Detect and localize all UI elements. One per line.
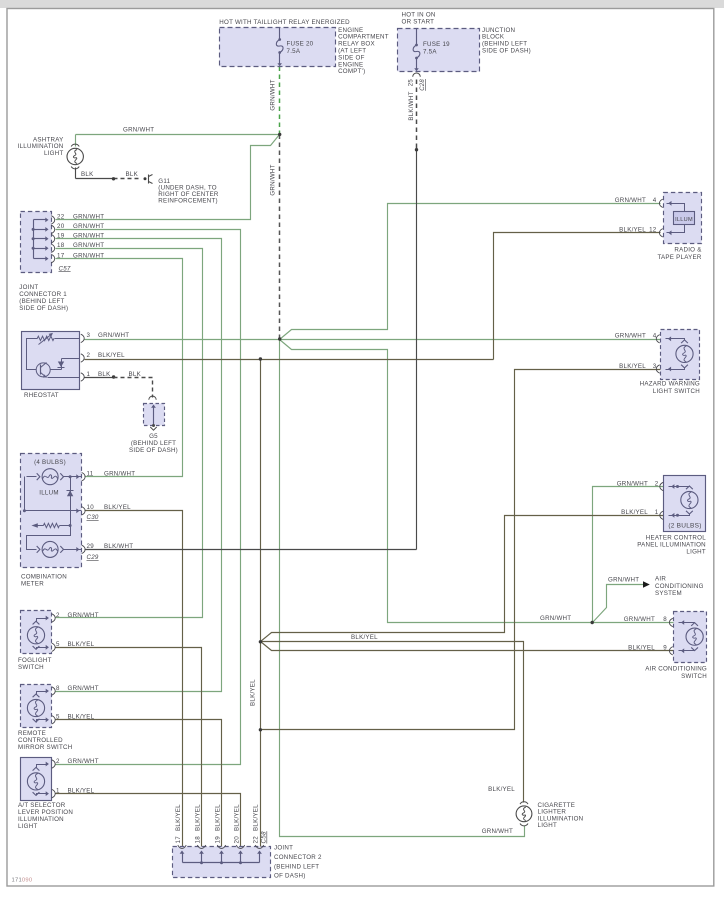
svg-text:SWITCH: SWITCH xyxy=(681,673,707,680)
svg-text:12: 12 xyxy=(649,227,657,234)
svg-text:CONDITIONING: CONDITIONING xyxy=(655,583,704,590)
svg-text:LIGHT: LIGHT xyxy=(538,822,557,829)
svg-text:7.5A: 7.5A xyxy=(287,48,301,55)
svg-text:ILLUM: ILLUM xyxy=(675,217,693,223)
svg-text:BLK/YEL: BLK/YEL xyxy=(621,509,648,516)
svg-text:19: 19 xyxy=(57,233,65,240)
svg-text:JOINT: JOINT xyxy=(274,844,293,851)
svg-text:BLK/YEL: BLK/YEL xyxy=(619,363,646,370)
svg-text:SIDE OF DASH): SIDE OF DASH) xyxy=(19,305,68,312)
svg-text:GRN/WHT: GRN/WHT xyxy=(617,480,648,487)
svg-text:RADIO &: RADIO & xyxy=(674,247,702,254)
svg-text:25: 25 xyxy=(409,79,415,87)
svg-text:22: 22 xyxy=(57,214,65,221)
svg-text:MIRROR SWITCH: MIRROR SWITCH xyxy=(18,744,72,751)
svg-text:FUSE 19: FUSE 19 xyxy=(423,41,450,48)
svg-text:LEVER POSITION: LEVER POSITION xyxy=(18,809,73,816)
svg-text:ILLUMINATION: ILLUMINATION xyxy=(18,816,64,823)
svg-text:GRN/WHT: GRN/WHT xyxy=(73,242,104,249)
svg-text:BLK/YEL: BLK/YEL xyxy=(194,804,201,831)
svg-text:17: 17 xyxy=(175,836,182,844)
svg-text:BLK/WHT: BLK/WHT xyxy=(408,91,415,120)
svg-text:GRN/WHT: GRN/WHT xyxy=(615,333,646,340)
svg-text:SIDE OF DASH): SIDE OF DASH) xyxy=(129,447,178,454)
svg-text:C57: C57 xyxy=(59,265,71,272)
svg-text:GRN/WHT: GRN/WHT xyxy=(73,252,104,259)
svg-text:1: 1 xyxy=(56,788,60,795)
svg-text:GRN/WHT: GRN/WHT xyxy=(270,79,277,110)
svg-text:BLK: BLK xyxy=(126,171,139,178)
svg-text:4: 4 xyxy=(653,197,657,204)
svg-text:BLK/YEL: BLK/YEL xyxy=(628,645,655,652)
svg-text:COMPT'): COMPT') xyxy=(338,68,365,75)
svg-text:SYSTEM: SYSTEM xyxy=(655,590,682,597)
svg-text:GRN/WHT: GRN/WHT xyxy=(608,577,639,584)
svg-text:GRN/WHT: GRN/WHT xyxy=(540,615,571,622)
svg-text:GRN/WHT: GRN/WHT xyxy=(73,233,104,240)
svg-text:C29: C29 xyxy=(87,554,99,561)
svg-text:GRN/WHT: GRN/WHT xyxy=(68,685,99,692)
svg-text:7.5A: 7.5A xyxy=(423,48,437,55)
svg-text:HOT WITH TAILLIGHT RELAY ENERG: HOT WITH TAILLIGHT RELAY ENERGIZED xyxy=(219,19,350,26)
svg-text:SIDE OF DASH): SIDE OF DASH) xyxy=(482,48,531,55)
svg-text:CONTROLLED: CONTROLLED xyxy=(18,737,63,744)
svg-text:29: 29 xyxy=(87,543,95,550)
svg-text:JOINT: JOINT xyxy=(19,284,38,291)
svg-text:FUSE 20: FUSE 20 xyxy=(287,41,314,48)
svg-text:BLK/YEL: BLK/YEL xyxy=(98,352,125,359)
svg-text:HEATER CONTROL: HEATER CONTROL xyxy=(646,535,706,542)
svg-text:LIGHT: LIGHT xyxy=(18,823,37,830)
svg-text:OR START: OR START xyxy=(402,19,435,26)
svg-text:OF DASH): OF DASH) xyxy=(274,873,306,880)
svg-text:22: 22 xyxy=(252,836,259,844)
svg-text:(BEHIND LEFT: (BEHIND LEFT xyxy=(19,298,64,305)
svg-text:GRN/WHT: GRN/WHT xyxy=(104,471,135,478)
svg-text:3: 3 xyxy=(653,363,657,370)
svg-text:BLK/YEL: BLK/YEL xyxy=(619,227,646,234)
svg-text:11: 11 xyxy=(87,471,94,478)
svg-text:20: 20 xyxy=(233,836,240,844)
svg-text:2: 2 xyxy=(56,758,60,765)
svg-text:(BEHIND LEFT: (BEHIND LEFT xyxy=(131,440,176,447)
svg-text:(4 BULBS): (4 BULBS) xyxy=(34,459,66,466)
svg-text:20: 20 xyxy=(57,223,65,230)
svg-text:(BEHIND LEFT: (BEHIND LEFT xyxy=(274,864,319,871)
svg-text:BLK/YEL: BLK/YEL xyxy=(68,788,95,795)
svg-text:GRN/WHT: GRN/WHT xyxy=(615,197,646,204)
svg-text:ILLUM: ILLUM xyxy=(39,490,58,497)
svg-text:BLK/YEL: BLK/YEL xyxy=(104,504,131,511)
svg-text:G5: G5 xyxy=(149,433,158,440)
svg-text:HAZARD WARNING: HAZARD WARNING xyxy=(640,381,700,388)
svg-text:2: 2 xyxy=(56,612,60,619)
svg-text:GRN/WHT: GRN/WHT xyxy=(73,223,104,230)
svg-text:BLK/YEL: BLK/YEL xyxy=(250,679,257,706)
svg-text:GRN/WHT: GRN/WHT xyxy=(98,332,129,339)
svg-text:GRN/WHT: GRN/WHT xyxy=(123,127,154,134)
svg-text:BLK/YEL: BLK/YEL xyxy=(68,714,95,721)
svg-text:AIR CONDITIONING: AIR CONDITIONING xyxy=(645,665,707,672)
svg-text:BLK/YEL: BLK/YEL xyxy=(68,641,95,648)
svg-text:GRN/WHT: GRN/WHT xyxy=(482,828,513,835)
svg-text:GRN/WHT: GRN/WHT xyxy=(624,616,655,623)
svg-text:3: 3 xyxy=(87,332,91,339)
svg-text:C28: C28 xyxy=(420,79,426,91)
svg-text:AIR: AIR xyxy=(655,576,666,583)
svg-text:GRN/WHT: GRN/WHT xyxy=(270,164,277,195)
svg-text:5: 5 xyxy=(56,714,60,721)
svg-text:BLK: BLK xyxy=(129,371,142,378)
svg-text:FOGLIGHT: FOGLIGHT xyxy=(18,657,52,664)
svg-text:METER: METER xyxy=(21,581,44,588)
svg-text:C58: C58 xyxy=(261,831,268,844)
svg-text:GRN/WHT: GRN/WHT xyxy=(68,612,99,619)
svg-text:BLK: BLK xyxy=(98,371,111,378)
svg-text:19: 19 xyxy=(214,836,221,844)
svg-text:BLK/YEL: BLK/YEL xyxy=(252,804,259,831)
svg-text:GRN/WHT: GRN/WHT xyxy=(73,214,104,221)
svg-text:C30: C30 xyxy=(87,514,99,521)
svg-text:HOT IN ON: HOT IN ON xyxy=(402,12,436,19)
svg-text:RHEOSTAT: RHEOSTAT xyxy=(24,392,59,399)
svg-text:9: 9 xyxy=(663,645,667,652)
svg-text:10: 10 xyxy=(87,504,95,511)
svg-text:18: 18 xyxy=(194,836,201,844)
svg-text:5: 5 xyxy=(56,641,60,648)
svg-text:CONNECTOR 2: CONNECTOR 2 xyxy=(274,854,322,861)
svg-text:LIGHT SWITCH: LIGHT SWITCH xyxy=(653,388,700,395)
svg-text:17: 17 xyxy=(57,252,65,259)
svg-text:CONNECTOR 1: CONNECTOR 1 xyxy=(19,291,67,298)
svg-text:8: 8 xyxy=(663,616,667,623)
svg-text:BLK/YEL: BLK/YEL xyxy=(233,804,240,831)
svg-text:1: 1 xyxy=(87,371,91,378)
svg-text:TAPE PLAYER: TAPE PLAYER xyxy=(657,254,701,261)
svg-text:2: 2 xyxy=(87,352,91,359)
svg-text:18: 18 xyxy=(57,242,65,249)
svg-text:1: 1 xyxy=(655,509,659,516)
svg-text:171090: 171090 xyxy=(12,878,33,884)
svg-text:(2 BULBS): (2 BULBS) xyxy=(668,523,701,530)
svg-text:BLK/YEL: BLK/YEL xyxy=(351,634,378,641)
svg-text:2: 2 xyxy=(655,480,659,487)
svg-text:4: 4 xyxy=(653,333,657,340)
svg-text:BLK/YEL: BLK/YEL xyxy=(488,786,515,793)
svg-text:PANEL ILLUMINATION: PANEL ILLUMINATION xyxy=(637,542,706,549)
svg-text:LIGHT: LIGHT xyxy=(44,150,63,157)
svg-text:REMOTE: REMOTE xyxy=(18,730,46,737)
svg-text:REINFORCEMENT): REINFORCEMENT) xyxy=(158,197,218,204)
svg-text:BLK: BLK xyxy=(81,171,94,178)
svg-text:COMBINATION: COMBINATION xyxy=(21,574,67,581)
svg-text:SWITCH: SWITCH xyxy=(18,664,44,671)
svg-text:BLK/YEL: BLK/YEL xyxy=(214,804,221,831)
svg-text:GRN/WHT: GRN/WHT xyxy=(68,758,99,765)
svg-text:BLK/YEL: BLK/YEL xyxy=(175,804,182,831)
svg-text:LIGHT: LIGHT xyxy=(686,549,705,556)
svg-text:A/T SELECTOR: A/T SELECTOR xyxy=(18,802,66,809)
svg-text:BLK/WHT: BLK/WHT xyxy=(104,543,133,550)
svg-text:8: 8 xyxy=(56,685,60,692)
